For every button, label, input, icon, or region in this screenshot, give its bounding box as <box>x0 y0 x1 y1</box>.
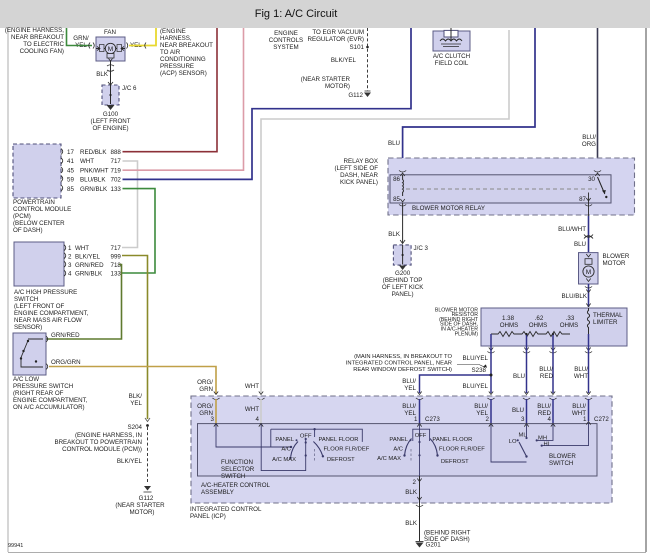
svg-text:CONDITIONING: CONDITIONING <box>160 56 206 63</box>
svg-text:DEFROST: DEFROST <box>441 459 469 465</box>
svg-text:KICK PANEL): KICK PANEL) <box>340 179 378 186</box>
svg-text:REAR WINDOW DEFROST SWITCH): REAR WINDOW DEFROST SWITCH) <box>353 367 452 373</box>
svg-text:ORG/: ORG/ <box>197 403 213 410</box>
svg-text:NEAR BREAKOUT: NEAR BREAKOUT <box>160 42 213 49</box>
svg-text:THERMAL: THERMAL <box>593 312 623 319</box>
svg-text:FLOOR FLR/DEF: FLOOR FLR/DEF <box>439 447 485 453</box>
svg-text:A/C MAX: A/C MAX <box>272 457 296 463</box>
svg-text:GRN/RED: GRN/RED <box>75 262 104 269</box>
svg-text:888: 888 <box>111 149 122 156</box>
svg-text:17: 17 <box>67 149 74 156</box>
svg-text:(NEAR STARTER: (NEAR STARTER <box>301 76 351 83</box>
svg-text:BLU/: BLU/ <box>474 403 488 410</box>
svg-text:J/C 6: J/C 6 <box>122 85 137 92</box>
svg-text:4: 4 <box>548 416 552 423</box>
svg-text:A/C MAX: A/C MAX <box>377 456 401 462</box>
svg-text:RED: RED <box>540 373 554 380</box>
svg-text:ORG: ORG <box>582 141 596 148</box>
svg-text:ML: ML <box>519 433 528 439</box>
svg-text:HI: HI <box>544 442 550 448</box>
svg-text:MOTOR: MOTOR <box>603 260 626 267</box>
svg-text:MOTOR): MOTOR) <box>325 83 350 90</box>
svg-text:BLK/: BLK/ <box>129 393 143 400</box>
svg-text:41: 41 <box>67 158 74 165</box>
svg-text:SENSOR): SENSOR) <box>14 324 42 331</box>
svg-text:A/C: A/C <box>393 447 403 453</box>
svg-text:30: 30 <box>588 176 595 183</box>
svg-text:BLU/: BLU/ <box>574 366 588 373</box>
svg-text:BLK/YEL: BLK/YEL <box>331 57 357 64</box>
svg-text:BLK/YEL: BLK/YEL <box>117 458 143 465</box>
svg-text:PANEL: PANEL <box>389 437 408 443</box>
svg-text:DASH, NEAR: DASH, NEAR <box>340 172 378 179</box>
svg-text:3: 3 <box>68 262 72 269</box>
svg-text:BLOWER: BLOWER <box>549 453 576 460</box>
svg-text:ENGINE COMPARTMENT,: ENGINE COMPARTMENT, <box>14 310 89 317</box>
svg-text:4: 4 <box>68 270 72 277</box>
svg-text:ENGINE COMPARTMENT,: ENGINE COMPARTMENT, <box>13 397 88 404</box>
svg-text:INTEGRATED CONTROL PANEL, NEAR: INTEGRATED CONTROL PANEL, NEAR <box>346 361 452 367</box>
svg-text:SELECTOR: SELECTOR <box>221 466 255 473</box>
svg-text:OF LEFT KICK: OF LEFT KICK <box>382 284 424 291</box>
svg-text:(BELOW CENTER: (BELOW CENTER <box>13 220 65 227</box>
svg-text:(LEFT FRONT: (LEFT FRONT <box>90 118 130 125</box>
svg-text:G112: G112 <box>139 495 154 502</box>
svg-text:C272: C272 <box>594 416 609 423</box>
svg-text:GRN/: GRN/ <box>73 35 89 42</box>
svg-text:FIELD COIL: FIELD COIL <box>435 60 469 67</box>
svg-text:J/C 3: J/C 3 <box>414 245 429 252</box>
svg-text:1: 1 <box>68 245 72 252</box>
svg-text:4: 4 <box>256 416 260 423</box>
svg-text:717: 717 <box>111 245 122 252</box>
svg-text:A/C HIGH PRESSURE: A/C HIGH PRESSURE <box>14 289 77 296</box>
svg-text:TO EGR VACUUM: TO EGR VACUUM <box>312 29 364 36</box>
svg-text:133: 133 <box>111 186 122 193</box>
svg-text:Fig 1: A/C Circuit: Fig 1: A/C Circuit <box>255 8 338 20</box>
svg-text:C273: C273 <box>425 416 440 423</box>
svg-text:ORG/: ORG/ <box>197 379 213 386</box>
svg-text:FLOOR FLR/DEF: FLOOR FLR/DEF <box>324 447 370 453</box>
svg-text:LIMITER: LIMITER <box>593 319 618 326</box>
svg-text:OF ENGINE): OF ENGINE) <box>92 125 128 132</box>
svg-text:BLU/: BLU/ <box>572 403 586 410</box>
svg-text:(ENGINE HARNESS, IN: (ENGINE HARNESS, IN <box>75 432 142 439</box>
svg-text:CONTROLS: CONTROLS <box>269 37 303 44</box>
svg-text:YEL: YEL <box>404 385 416 392</box>
svg-text:(ACP) SENSOR): (ACP) SENSOR) <box>160 70 207 77</box>
svg-text:POWERTRAIN: POWERTRAIN <box>13 199 55 206</box>
svg-text:(PCM): (PCM) <box>13 213 31 220</box>
svg-text:45: 45 <box>67 167 74 174</box>
svg-text:ON A/C ACCUMULATOR): ON A/C ACCUMULATOR) <box>13 404 85 411</box>
svg-text:WHT: WHT <box>245 406 259 413</box>
svg-text:CONTROL MODULE: CONTROL MODULE <box>13 206 71 213</box>
svg-text:999: 999 <box>111 253 122 260</box>
svg-text:OFF: OFF <box>300 434 312 440</box>
svg-text:BLU: BLU <box>388 140 400 147</box>
svg-text:BLU/: BLU/ <box>402 378 416 385</box>
svg-text:3: 3 <box>521 416 525 423</box>
svg-text:59: 59 <box>67 177 74 184</box>
svg-text:BLU: BLU <box>512 407 524 414</box>
svg-text:85: 85 <box>67 186 74 193</box>
svg-text:3: 3 <box>211 416 215 423</box>
svg-text:OHMS: OHMS <box>529 322 548 329</box>
svg-text:86: 86 <box>393 176 400 183</box>
svg-text:(MAIN HARNESS, IN BREAKOUT TO: (MAIN HARNESS, IN BREAKOUT TO <box>354 354 452 360</box>
svg-text:GRN/BLK: GRN/BLK <box>80 186 108 193</box>
svg-text:1: 1 <box>583 416 587 423</box>
svg-text:A/C CLUTCH: A/C CLUTCH <box>433 53 470 60</box>
svg-text:99941: 99941 <box>8 543 23 549</box>
svg-text:REGULATOR (EVR): REGULATOR (EVR) <box>308 36 365 43</box>
svg-text:G200: G200 <box>395 270 411 277</box>
svg-text:WHT: WHT <box>574 373 588 380</box>
svg-text:M: M <box>108 46 113 53</box>
svg-text:2: 2 <box>68 253 72 260</box>
svg-text:WHT: WHT <box>245 383 259 390</box>
svg-text:ENGINE: ENGINE <box>274 30 298 37</box>
svg-text:BLU: BLU <box>513 373 525 380</box>
svg-text:(RIGHT REAR OF: (RIGHT REAR OF <box>13 390 64 397</box>
svg-text:PANEL FLOOR: PANEL FLOOR <box>432 437 472 443</box>
svg-text:BLU: BLU <box>574 241 586 248</box>
svg-text:PLENUM): PLENUM) <box>455 331 479 337</box>
svg-text:MOTOR): MOTOR) <box>130 509 155 516</box>
svg-text:BLU/YEL: BLU/YEL <box>463 383 489 390</box>
svg-text:A/C LOW: A/C LOW <box>13 376 39 383</box>
svg-text:TO AIR: TO AIR <box>160 49 181 56</box>
svg-text:(BEHIND TOP: (BEHIND TOP <box>383 277 423 284</box>
svg-text:ASSEMBLY: ASSEMBLY <box>201 489 234 496</box>
svg-text:NEAR BREAKOUT: NEAR BREAKOUT <box>11 34 64 41</box>
svg-text:OFF: OFF <box>415 433 427 439</box>
svg-text:SIDE OF DASH): SIDE OF DASH) <box>424 536 470 543</box>
svg-text:S101: S101 <box>350 44 365 51</box>
svg-text:PANEL: PANEL <box>275 437 294 443</box>
svg-text:FUNCTION: FUNCTION <box>221 459 253 466</box>
svg-text:SYSTEM: SYSTEM <box>273 44 298 51</box>
svg-text:OHMS: OHMS <box>500 322 519 329</box>
svg-text:PANEL FLOOR: PANEL FLOOR <box>319 437 359 443</box>
svg-text:OHMS: OHMS <box>560 322 579 329</box>
svg-text:S238: S238 <box>472 367 487 374</box>
svg-text:S204: S204 <box>128 424 143 431</box>
svg-text:(ENGINE HARNESS,: (ENGINE HARNESS, <box>5 27 64 34</box>
svg-text:FAN: FAN <box>104 29 116 36</box>
svg-text:1.38: 1.38 <box>502 315 515 322</box>
svg-text:BLOWER: BLOWER <box>603 253 630 260</box>
svg-text:COOLING FAN): COOLING FAN) <box>20 48 64 55</box>
svg-text:BLK: BLK <box>405 489 418 496</box>
svg-text:TO ELECTRIC: TO ELECTRIC <box>23 41 64 48</box>
svg-text:G112: G112 <box>348 92 363 99</box>
svg-text:GRN/RED: GRN/RED <box>51 332 80 339</box>
svg-text:(NEAR STARTER: (NEAR STARTER <box>115 502 165 509</box>
svg-text:1: 1 <box>414 416 418 423</box>
svg-text:SWITCH: SWITCH <box>221 473 245 480</box>
svg-text:DEFROST: DEFROST <box>327 457 355 463</box>
svg-text:LO: LO <box>509 439 517 445</box>
svg-text:717: 717 <box>111 158 122 165</box>
svg-text:87: 87 <box>579 196 586 203</box>
svg-text:INTEGRATED CONTROL: INTEGRATED CONTROL <box>190 506 262 513</box>
svg-text:BLU/BLK: BLU/BLK <box>562 293 588 300</box>
svg-text:NEAR MASS AIR FLOW: NEAR MASS AIR FLOW <box>14 317 82 324</box>
svg-text:BLK: BLK <box>388 231 401 238</box>
svg-text:PANEL): PANEL) <box>392 291 414 298</box>
svg-text:OF DASH): OF DASH) <box>13 227 43 234</box>
svg-text:BLU/: BLU/ <box>539 366 553 373</box>
svg-text:.33: .33 <box>566 315 575 322</box>
svg-text:HARNESS,: HARNESS, <box>160 35 192 42</box>
svg-text:133: 133 <box>111 270 122 277</box>
svg-text:PRESSURE: PRESSURE <box>160 63 194 70</box>
svg-text:ORG/GRN: ORG/GRN <box>51 359 81 366</box>
svg-text:GRN: GRN <box>199 386 213 393</box>
svg-text:BLK: BLK <box>405 520 418 527</box>
svg-text:BLK: BLK <box>96 71 109 78</box>
svg-text:(ENGINE: (ENGINE <box>160 28 186 35</box>
svg-text:(LEFT SIDE OF: (LEFT SIDE OF <box>334 165 378 172</box>
svg-text:BREAKOUT TO POWERTRAIN: BREAKOUT TO POWERTRAIN <box>54 439 142 446</box>
svg-text:BLU/WHT: BLU/WHT <box>558 226 586 233</box>
svg-text:.62: .62 <box>535 315 544 322</box>
svg-text:A/C: A/C <box>281 447 291 453</box>
svg-text:(LEFT FRONT OF: (LEFT FRONT OF <box>14 303 65 310</box>
svg-text:SWITCH: SWITCH <box>549 460 573 467</box>
svg-text:RED/BLK: RED/BLK <box>80 149 107 156</box>
svg-text:2: 2 <box>486 416 490 423</box>
svg-text:BLU/: BLU/ <box>537 403 551 410</box>
svg-text:A/C-HEATER CONTROL: A/C-HEATER CONTROL <box>201 482 271 489</box>
svg-text:BLK/YEL: BLK/YEL <box>75 253 101 260</box>
svg-text:CONTROL MODULE (PCM)): CONTROL MODULE (PCM)) <box>62 446 142 453</box>
svg-text:85: 85 <box>393 196 400 203</box>
svg-text:WHT: WHT <box>75 245 89 252</box>
svg-text:702: 702 <box>111 177 122 184</box>
svg-text:WHT: WHT <box>80 158 94 165</box>
svg-text:PANEL (ICP): PANEL (ICP) <box>190 513 226 520</box>
svg-text:YEL: YEL <box>130 400 142 407</box>
svg-text:2: 2 <box>413 479 417 486</box>
svg-text:GRN/BLK: GRN/BLK <box>75 270 103 277</box>
svg-text:PRESSURE SWITCH: PRESSURE SWITCH <box>13 383 73 390</box>
svg-text:SWITCH: SWITCH <box>14 296 38 303</box>
svg-text:RELAY BOX: RELAY BOX <box>343 158 378 165</box>
svg-text:BLU/: BLU/ <box>582 134 596 141</box>
svg-text:BLU/BLK: BLU/BLK <box>80 177 106 184</box>
svg-text:719: 719 <box>111 167 122 174</box>
svg-text:BLOWER MOTOR RELAY: BLOWER MOTOR RELAY <box>412 205 485 212</box>
svg-text:BLU/: BLU/ <box>402 403 416 410</box>
svg-text:M: M <box>586 269 591 276</box>
svg-text:G100: G100 <box>103 111 119 118</box>
svg-text:BLU/YEL: BLU/YEL <box>463 355 489 362</box>
svg-text:PNK/WHT: PNK/WHT <box>80 167 109 174</box>
